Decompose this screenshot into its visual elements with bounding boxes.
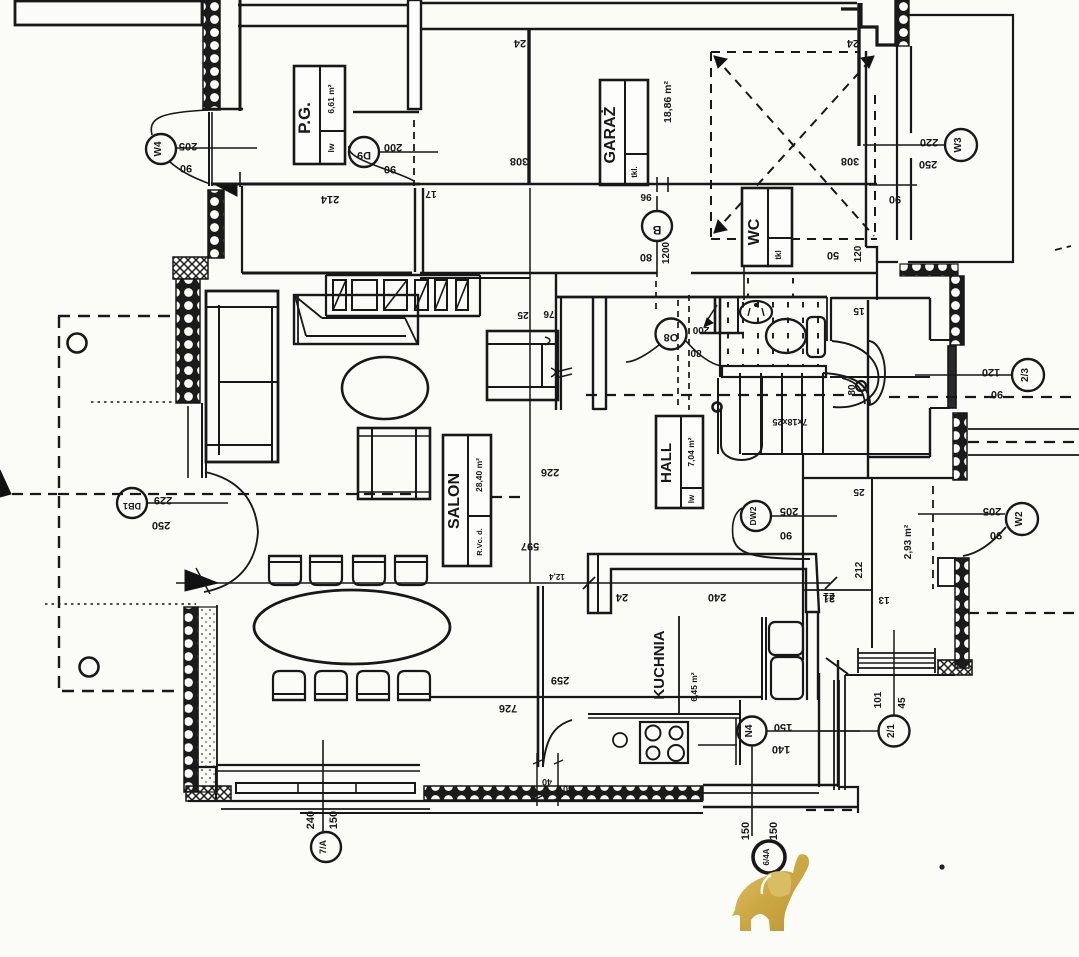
east wall line x866 upper xyxy=(865,51,867,247)
shelf slot x384 xyxy=(384,280,407,310)
svg-text:220: 220 xyxy=(920,136,938,148)
shelf slot x415 xyxy=(415,280,428,310)
SE corner hatch xyxy=(938,660,972,675)
svg-text:WC: WC xyxy=(746,218,763,245)
svg-text:120: 120 xyxy=(853,245,864,262)
svg-text:308: 308 xyxy=(841,155,859,167)
svg-text:GARAŻ: GARAŻ xyxy=(601,106,619,163)
sofa xyxy=(206,291,278,462)
room label box P.G. xyxy=(294,66,345,164)
wall x819-838 SE xyxy=(818,673,820,787)
long dashed line y493 xyxy=(12,493,57,495)
svg-text:17: 17 xyxy=(425,188,437,199)
svg-text:25: 25 xyxy=(853,486,865,497)
hall east wall x868 xyxy=(867,300,869,478)
svg-text:76: 76 xyxy=(543,308,555,319)
wall under window xyxy=(845,674,955,676)
east kitchen window glass vertical xyxy=(833,680,835,790)
svg-text:24: 24 xyxy=(615,591,628,603)
svg-text:2,93 m²: 2,93 m² xyxy=(903,524,914,559)
door jamb lines wc xyxy=(826,297,828,341)
svg-text:90: 90 xyxy=(780,529,792,541)
chair b373 xyxy=(357,671,389,700)
svg-text:7x18x25: 7x18x25 xyxy=(772,417,807,427)
svg-text:229: 229 xyxy=(154,494,172,506)
svg-text:6,61 m²: 6,61 m² xyxy=(326,84,336,113)
break ticks xyxy=(556,368,572,372)
short dashes kitchen south xyxy=(806,809,854,811)
svg-text:24: 24 xyxy=(513,37,526,49)
long wall line y184 left xyxy=(211,183,420,186)
salon label box SALON xyxy=(443,435,491,566)
svg-text:W2: W2 xyxy=(1014,511,1025,526)
svg-text:12,4: 12,4 xyxy=(549,572,565,581)
tile dashes xyxy=(727,302,729,366)
wall salon-kitchen x540 xyxy=(537,586,540,767)
shelf slot x333 xyxy=(333,280,346,310)
svg-text:150: 150 xyxy=(328,811,340,829)
shelf slot x352 xyxy=(352,280,377,310)
svg-text:80: 80 xyxy=(640,251,652,263)
dashed right y613 xyxy=(968,612,1079,614)
WC room fixtures: washbasin xyxy=(740,301,772,323)
small dot right xyxy=(939,864,944,869)
shelf slot x435 xyxy=(435,280,447,310)
window circle W3 xyxy=(945,129,977,161)
svg-text:90: 90 xyxy=(889,193,901,205)
door circle N4 xyxy=(738,717,767,746)
svg-text:96: 96 xyxy=(640,191,652,202)
svg-text:250: 250 xyxy=(919,158,937,170)
west wall corner block xyxy=(173,257,208,279)
west wall chain lower xyxy=(184,607,198,792)
square armchair xyxy=(358,428,430,499)
garage bottom wall y185 xyxy=(237,183,877,186)
svg-text:205: 205 xyxy=(179,140,197,152)
door arc wc xyxy=(832,341,878,407)
stairs bottom line xyxy=(742,453,930,455)
elephant watermark xyxy=(732,854,809,931)
svg-text:15: 15 xyxy=(853,305,865,316)
double door arcs west xyxy=(205,472,258,532)
wall arrow mark xyxy=(212,183,237,196)
dim line x531 xyxy=(529,188,531,583)
solid y429 right xyxy=(968,428,1079,430)
sink small xyxy=(613,733,627,747)
svg-text:2/1: 2/1 xyxy=(886,724,897,738)
wall stub x556-561 xyxy=(555,273,557,410)
hall label box HALL xyxy=(656,416,703,508)
wall salon top y273 xyxy=(420,272,657,275)
leader WC down xyxy=(743,266,745,300)
svg-text:80: 80 xyxy=(690,347,702,358)
circle 6/4A xyxy=(753,841,785,873)
svg-text:HALL: HALL xyxy=(658,443,675,483)
tv stand trapezoid xyxy=(294,295,418,344)
long line y697 xyxy=(431,696,762,698)
SE corner step xyxy=(838,787,858,813)
south wall top line xyxy=(216,764,420,766)
wall pillar x592-607 xyxy=(592,297,594,410)
chair t285 xyxy=(269,556,301,585)
exterior wall bar top-left xyxy=(15,1,202,25)
svg-text:1200: 1200 xyxy=(661,241,672,264)
svg-text:W4: W4 xyxy=(153,141,164,156)
svg-text:90: 90 xyxy=(991,388,1003,400)
handrail U xyxy=(721,378,762,460)
south wall kitchen band xyxy=(703,784,838,786)
svg-text:90: 90 xyxy=(180,162,192,174)
svg-text:240: 240 xyxy=(708,591,726,603)
wall under WC y370-378 xyxy=(722,366,826,377)
wall stepped corner top-right xyxy=(861,3,896,45)
dashed diagonal 1 xyxy=(714,56,874,236)
svg-text:205: 205 xyxy=(983,505,1001,517)
svg-text:150: 150 xyxy=(740,822,752,840)
top-right room outline xyxy=(909,14,1014,16)
west wall chain upper xyxy=(208,190,224,258)
window band salon xyxy=(236,783,415,793)
svg-text:21: 21 xyxy=(823,590,835,601)
door circle DW2 xyxy=(741,501,771,531)
chair t411 xyxy=(395,556,427,585)
window circle W4 xyxy=(146,134,176,164)
svg-text:40: 40 xyxy=(542,777,552,787)
arrow to door xyxy=(706,305,717,322)
door circle B xyxy=(642,211,672,241)
svg-text:240: 240 xyxy=(305,811,317,829)
west window strip upper xyxy=(208,112,210,186)
wall lines upper band left room xyxy=(238,4,409,6)
svg-text:150: 150 xyxy=(774,721,792,733)
svg-text:6/4A: 6/4A xyxy=(762,848,771,865)
insulation chain south xyxy=(424,786,703,800)
svg-text:726: 726 xyxy=(499,702,517,714)
svg-text:DB1: DB1 xyxy=(123,501,141,511)
svg-text:101: 101 xyxy=(873,691,884,708)
wall cap under chain xyxy=(203,108,243,111)
dotted line 1 xyxy=(91,401,172,403)
svg-text:90: 90 xyxy=(990,529,1002,541)
SW corner crosshatch xyxy=(186,786,231,801)
chair b289 xyxy=(273,671,305,700)
small dashes right edge xyxy=(1055,246,1071,250)
dim slash ticks y583 xyxy=(583,577,595,589)
svg-text:90: 90 xyxy=(384,163,396,175)
svg-text:18,86 m²: 18,86 m² xyxy=(662,80,674,123)
dashed line salon mid xyxy=(491,496,523,498)
chair t369 xyxy=(353,556,385,585)
kitchen top counter band xyxy=(588,554,819,613)
leader D9 xyxy=(379,151,438,153)
svg-text:205: 205 xyxy=(780,505,798,517)
wall column x408-421 xyxy=(408,0,421,109)
svg-text:B: B xyxy=(652,223,661,237)
diagonal arrowheads xyxy=(714,56,727,68)
terrace dashed outline xyxy=(58,315,176,317)
closet door arc xyxy=(868,341,885,405)
big black arrow left edge xyxy=(0,470,11,497)
west wall inner line x241 xyxy=(241,186,243,273)
svg-text:SALON: SALON xyxy=(446,473,463,529)
dashed door opening xyxy=(413,120,415,186)
chair t326 xyxy=(310,556,342,585)
armchair east xyxy=(487,331,558,400)
window circle 2/3 top xyxy=(1012,359,1044,391)
bottom counter xyxy=(588,713,740,715)
wall column x414-424 lower xyxy=(414,188,416,272)
door arc east xyxy=(963,527,1006,556)
svg-text:P.G.: P.G. xyxy=(295,102,314,134)
circle 7/A xyxy=(311,832,341,862)
south wall lines xyxy=(188,800,703,802)
wall garage right x858 xyxy=(857,3,860,146)
dotted line 2 xyxy=(45,603,196,605)
svg-text:W3: W3 xyxy=(953,137,964,152)
svg-text:50: 50 xyxy=(827,249,839,261)
svg-text:597: 597 xyxy=(521,540,539,552)
solid y455 right xyxy=(968,454,1079,456)
svg-text:140: 140 xyxy=(772,743,790,755)
coffee table oval xyxy=(342,357,428,419)
svg-text:25: 25 xyxy=(517,309,529,320)
wall wc-block y273 right xyxy=(691,272,877,275)
door circle DB1 xyxy=(117,488,147,518)
wall divider x525 xyxy=(527,29,530,184)
svg-text:250: 250 xyxy=(152,519,170,531)
dashed right y442 xyxy=(968,441,1079,443)
circle 2/1 xyxy=(879,716,910,747)
room label box WC xyxy=(742,188,792,266)
stairs curve right xyxy=(823,373,870,404)
chair b414 xyxy=(398,671,430,700)
dashed vert bath edges xyxy=(655,281,657,313)
window circle 2/3 bottom xyxy=(1006,503,1038,535)
leader W4 xyxy=(176,147,257,149)
door circle O8 xyxy=(656,319,687,350)
dim line y583 xyxy=(176,582,830,584)
svg-text:24: 24 xyxy=(846,37,859,49)
svg-text:259: 259 xyxy=(551,674,569,686)
dim vertical x323 xyxy=(322,740,324,833)
dashed diagonal 2 xyxy=(714,56,874,233)
door circle D9 xyxy=(349,137,379,167)
svg-text:214: 214 xyxy=(320,193,339,205)
svg-text:DW2: DW2 xyxy=(748,506,758,525)
svg-text:tkl: tkl xyxy=(774,250,783,259)
east window glass 1 xyxy=(948,346,956,408)
wall bits left of window xyxy=(188,767,216,801)
chair b331 xyxy=(315,671,347,700)
east wall chain column 3 xyxy=(955,558,969,668)
svg-text:40: 40 xyxy=(563,784,573,794)
svg-text:45: 45 xyxy=(897,697,908,709)
svg-text:13: 13 xyxy=(878,594,890,605)
dining table oval xyxy=(254,590,450,664)
newel dot xyxy=(713,403,722,412)
svg-text:tkl.: tkl. xyxy=(630,166,639,178)
dashed long right y397 xyxy=(889,396,1079,398)
tv stand left edge double xyxy=(297,295,299,344)
column circle 1 xyxy=(68,334,87,353)
fridge xyxy=(761,617,763,700)
svg-text:120: 120 xyxy=(982,366,1000,378)
svg-text:R.Vc. d.: R.Vc. d. xyxy=(475,528,484,556)
svg-text:226: 226 xyxy=(541,466,559,478)
svg-text:6,45 m²: 6,45 m² xyxy=(689,672,699,701)
kitchen right wall xyxy=(806,612,808,700)
elephant head patch xyxy=(767,871,791,897)
svg-text:28,40 m²: 28,40 m² xyxy=(474,458,484,492)
insulation chain column top-right xyxy=(895,0,909,46)
long dashed y395 xyxy=(586,394,864,396)
toilet xyxy=(766,319,806,353)
dim ticks 40 xyxy=(536,753,538,806)
door jambs xyxy=(656,177,658,192)
svg-text:212: 212 xyxy=(854,561,865,578)
wall hall top y297 xyxy=(557,296,827,299)
wall x872-877 upper xyxy=(876,246,878,300)
column circle 2 xyxy=(80,658,99,677)
svg-text:KUCHNIA: KUCHNIA xyxy=(651,630,668,699)
insulation chain column upper-left xyxy=(203,0,220,110)
stairs treads xyxy=(717,378,719,454)
svg-text:7/A: 7/A xyxy=(318,840,328,855)
east opening + door leaf xyxy=(938,558,955,586)
closet room east of hall xyxy=(831,297,930,299)
stove xyxy=(640,722,688,763)
svg-text:lw: lw xyxy=(687,494,696,503)
wall top band to garage xyxy=(421,2,857,4)
door arc dw2 xyxy=(733,537,810,559)
elephant ear crescent xyxy=(762,875,771,894)
room label box GARAZ xyxy=(600,80,648,185)
east wall chain column 1 xyxy=(950,276,964,345)
svg-text:N4: N4 xyxy=(744,724,755,737)
svg-text:2/3: 2/3 xyxy=(1020,368,1031,382)
door arc kitchen-salon xyxy=(543,720,572,766)
east wall chain column 2 xyxy=(953,413,967,480)
west wall chain mid xyxy=(176,279,200,403)
svg-text:7,04 m²: 7,04 m² xyxy=(686,437,696,466)
dashed cross square xyxy=(710,52,712,237)
east step y247-262 xyxy=(866,247,898,262)
window band east room xyxy=(858,652,935,654)
west wall window strip xyxy=(201,403,203,478)
dashed vert x933 xyxy=(932,486,934,589)
shelf slot x456 xyxy=(456,280,468,310)
larder outline xyxy=(802,455,804,660)
wall column right x896-911 xyxy=(896,46,898,240)
svg-text:200: 200 xyxy=(384,141,402,153)
wall wc left x714-720 xyxy=(714,297,717,334)
svg-text:O8: O8 xyxy=(664,331,679,343)
black arrow dim xyxy=(185,570,218,591)
tick 90 right xyxy=(869,184,917,186)
insulation chain east top xyxy=(900,264,958,276)
svg-text:lw: lw xyxy=(326,143,336,152)
shelf row xyxy=(326,274,480,276)
svg-text:150: 150 xyxy=(768,822,780,840)
svg-text:308: 308 xyxy=(510,155,528,167)
